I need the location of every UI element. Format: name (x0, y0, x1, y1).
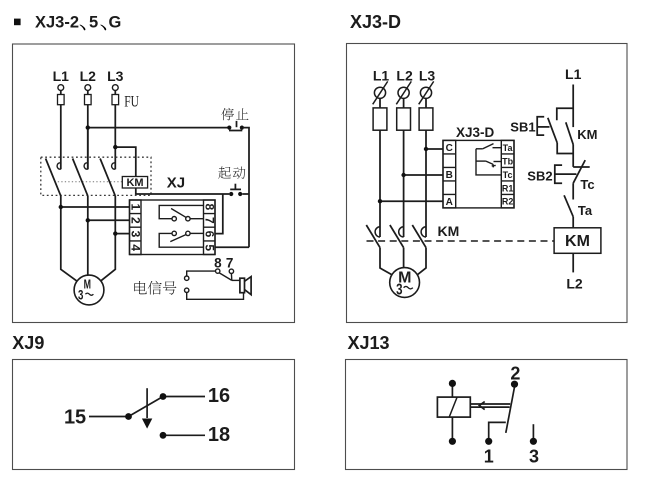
wire L2 down through fuse (87, 91, 89, 170)
svg-text:1: 1 (128, 203, 142, 210)
wire KM aux bottom (572, 145, 574, 167)
svg-text:M: M (84, 278, 91, 292)
wire L1 tap to A (380, 200, 443, 202)
svg-text:XJ9: XJ9 (12, 333, 44, 353)
contact blade from 2 (506, 387, 515, 433)
junction dot L3/C (424, 147, 428, 151)
svg-text:XJ3-2: XJ3-2 (35, 14, 79, 32)
svg-text:KM: KM (565, 233, 590, 250)
stop button terminal dots (227, 126, 231, 130)
link arrowhead (479, 402, 484, 410)
contactor coil KM box (control) (554, 228, 601, 254)
node L3 terminal circle (112, 85, 118, 91)
svg-text:3: 3 (529, 446, 539, 466)
changeover blade 15-16 (129, 397, 164, 417)
svg-text:Tc: Tc (503, 170, 513, 180)
wire L2 down to KM contact (403, 130, 405, 237)
svg-text:5: 5 (202, 244, 216, 251)
svg-text:R2: R2 (502, 197, 514, 207)
terminal dot 1 (485, 438, 492, 445)
svg-text:7: 7 (202, 217, 216, 224)
KM main contact 3 blade (100, 159, 115, 196)
KM main contact 2 hook (399, 227, 404, 237)
junction dot L2/stop (86, 125, 90, 129)
fuse FU phase L3 (112, 95, 119, 105)
wire L3 down through fuse (114, 91, 116, 170)
section bullet (14, 19, 21, 26)
panel border XJ3-2,5,G (13, 44, 295, 323)
svg-text:5: 5 (89, 14, 98, 32)
svg-text:R1: R1 (502, 183, 514, 193)
wire to 18 (166, 434, 205, 436)
XJ lower contact wiring (159, 233, 203, 247)
svg-text:3: 3 (78, 288, 84, 303)
KM main contact 3 fixed lead hook (112, 163, 116, 169)
motor M 3~ (74, 275, 104, 305)
wire to 16 (166, 396, 205, 398)
svg-text:2: 2 (510, 363, 520, 383)
Ta contact blade (564, 195, 573, 216)
wire L3 below contact to motor (101, 196, 115, 281)
svg-text:XJ: XJ (167, 175, 185, 192)
KM main contact 1 fixed lead hook (57, 163, 61, 169)
fuse L1 (373, 108, 387, 130)
junction dot L2/B (401, 173, 405, 177)
wire coil bottom (451, 417, 453, 438)
actuator arrowhead (142, 419, 152, 429)
wire stop button to right rail (244, 128, 249, 248)
mechanical linkage dashed KM (367, 240, 554, 242)
KM main contact 3 blade (412, 225, 426, 248)
svg-text:8: 8 (202, 203, 216, 210)
XJ upper contact wiring (159, 205, 203, 218)
title XJ3-2,5,G (35, 14, 121, 32)
wire L2 continues down (87, 128, 89, 170)
svg-text:Tc: Tc (580, 177, 594, 192)
svg-text:L2: L2 (396, 67, 413, 83)
signal contact circles 8 and 7 (216, 269, 220, 273)
terminal dot 15 (125, 413, 132, 420)
wire L2 tap to B (404, 174, 443, 176)
svg-text:L1: L1 (373, 67, 390, 83)
KM main contact 1 hook (375, 227, 380, 237)
wire contact 7 down (230, 274, 232, 281)
svg-text:SB1: SB1 (510, 120, 535, 135)
SB2 NC fixed bar (573, 166, 590, 168)
coil diagonal (449, 397, 457, 417)
KM main contact 1 blade (366, 225, 380, 248)
terminal dot 18 (160, 432, 167, 439)
terminal dot (coil bottom) (449, 438, 456, 445)
svg-text:FU: FU (124, 94, 139, 111)
junction dot L1/A (378, 199, 382, 203)
label qi-dong (start) (218, 167, 231, 179)
wire L1 below contact to motor (61, 196, 77, 281)
wire coil top (451, 386, 453, 397)
wire L1 down through fuse to KM contact (60, 91, 62, 170)
wire terminal 1 L-shape (489, 422, 506, 438)
label dian-xin-hao (electric signal) (134, 281, 146, 294)
wire branch to XJ terminal 6 (215, 194, 223, 234)
start push button NO (230, 184, 241, 190)
svg-text:A: A (446, 197, 453, 208)
terminal dot 2 (511, 381, 518, 388)
XJ3-D inner rail (476, 149, 501, 175)
start button terminal dots (229, 192, 233, 196)
wire SB2 to Ta contact (572, 183, 574, 199)
KM main contact 2 blade (73, 159, 88, 196)
panel border XJ9 (13, 360, 295, 470)
SB2 operator bracket (555, 165, 562, 183)
stop push button NC (229, 121, 242, 131)
relay coil box XJ13 (437, 397, 470, 417)
terminal dot 16 (160, 393, 167, 400)
svg-text:3: 3 (128, 231, 142, 238)
SB2 blade crossing (573, 160, 585, 183)
wire L1 down (572, 85, 574, 128)
svg-text:L3: L3 (107, 68, 124, 84)
wire tap to XJ terminal 2 (88, 219, 130, 221)
wire L3 branch to KM coil (115, 147, 136, 176)
KM aux contact blade (566, 122, 573, 144)
svg-text:B: B (446, 170, 453, 181)
wire SB1 bottom rejoin (557, 143, 573, 154)
svg-text:3: 3 (396, 280, 403, 298)
wire start button right to rail (242, 193, 249, 195)
relay XJ box (130, 200, 216, 255)
svg-text:7: 7 (226, 255, 234, 270)
panel border XJ13 (346, 360, 628, 470)
SB1 operator bracket (537, 117, 544, 135)
svg-text:16: 16 (208, 385, 230, 407)
terminal circle L3 with slash (419, 81, 434, 104)
wire from 15 (89, 416, 129, 418)
XJ3-D inner Tb contact (476, 160, 486, 162)
fuse L2 (397, 108, 411, 130)
svg-text:XJ3-D: XJ3-D (350, 12, 401, 32)
svg-text:G: G (109, 14, 122, 32)
wire tap to XJ terminal 3 (115, 233, 129, 235)
wire L2 branch to stop button (88, 127, 228, 129)
terminal dot 3 (530, 438, 537, 445)
wire top: terminal to contact 8 (187, 271, 216, 276)
wire L2 to fuse (403, 98, 405, 108)
actuator line (146, 388, 148, 418)
svg-text:XJ3-D: XJ3-D (456, 125, 495, 140)
node L1 terminal circle (58, 85, 64, 91)
svg-text:L1: L1 (565, 66, 582, 82)
KM main contact 2 fixed lead hook (84, 163, 88, 169)
svg-text:8: 8 (214, 255, 222, 270)
wire split to SB1 branch (557, 108, 573, 120)
SB1 blade (548, 118, 557, 143)
svg-text:15: 15 (64, 406, 86, 428)
XJ lower contact circles (172, 231, 176, 235)
fuse L3 (419, 108, 433, 130)
XJ lower contact blade (170, 235, 186, 242)
wire terminal 3 stub (532, 424, 534, 438)
wire contact1 to motor (380, 248, 392, 275)
fuse FU phase L2 (85, 95, 92, 105)
wire blade to speaker (232, 279, 240, 281)
terminal circle L2 with slash (396, 81, 411, 104)
XJ upper contact blade (171, 209, 186, 218)
svg-text:Ta: Ta (503, 143, 514, 153)
wire L3 down to KM contact (425, 130, 427, 237)
wire L2 below contact to motor (87, 196, 89, 275)
svg-text:Tb: Tb (502, 156, 513, 166)
svg-text:2: 2 (128, 217, 142, 224)
junction dot L3/KM coil (113, 145, 117, 149)
wire KM coil bottom to start button (136, 188, 229, 194)
svg-text:1: 1 (484, 446, 494, 466)
XJ3-D inner Ta contact (476, 148, 483, 150)
svg-text:L3: L3 (419, 67, 436, 83)
wire L1 to fuse (379, 98, 381, 108)
svg-text:18: 18 (208, 424, 230, 446)
XJ upper contact circles (172, 217, 176, 221)
KM main contact 1 blade (46, 159, 61, 196)
wire contact2 to motor (403, 248, 405, 268)
wire L3 to fuse (425, 98, 427, 108)
terminal dot (coil top) (449, 380, 456, 387)
KM main contact 3 hook (421, 227, 426, 237)
svg-text:Ta: Ta (578, 203, 593, 218)
wire KM coil to L2 (572, 253, 574, 272)
contactor coil KM box (122, 177, 147, 189)
signal contact blade (219, 273, 232, 281)
wire rail to XJ terminal 5 (215, 246, 249, 248)
panel border XJ3-D (347, 44, 628, 323)
svg-text:L1: L1 (53, 68, 70, 84)
junction dot L3/terminal3 (113, 231, 117, 235)
node L2 terminal circle (85, 85, 91, 91)
wire Ta to KM coil (572, 217, 574, 228)
fuse FU phase L1 (58, 95, 65, 105)
wire bottom loop (187, 293, 244, 300)
motor M 3~ (XJ3-D) (390, 268, 420, 298)
svg-text:L2: L2 (80, 68, 97, 84)
wire tap to XJ terminal 1 (61, 206, 130, 208)
wire contact3 to motor (417, 248, 426, 275)
svg-text:SB2: SB2 (527, 169, 552, 184)
svg-text:XJ13: XJ13 (348, 333, 390, 353)
wire L1 down to KM contact (379, 130, 381, 237)
svg-text:KM: KM (126, 177, 143, 189)
relay XJ3-D box (443, 140, 514, 208)
signal left terminal circles (185, 276, 189, 280)
speaker (240, 278, 245, 293)
mechanical link double line (470, 404, 510, 407)
terminal circle L1 with slash (373, 81, 388, 104)
KM main contact 2 blade (390, 225, 404, 248)
svg-text:KM: KM (577, 127, 597, 142)
svg-text:L2: L2 (566, 276, 583, 292)
svg-text:4: 4 (128, 244, 142, 251)
junction dot L2/terminal2 (86, 218, 90, 222)
KM main-contact dashed box (41, 157, 151, 195)
svg-text:6: 6 (202, 231, 216, 238)
mechanical linkage dotted line to KM coil (58, 181, 123, 183)
wire L3 tap to C (426, 148, 443, 150)
junction dot L1/terminal1 (59, 205, 63, 209)
svg-text:C: C (446, 143, 453, 154)
label ting-zhi (stop) (221, 108, 234, 120)
svg-text:KM: KM (438, 223, 460, 239)
